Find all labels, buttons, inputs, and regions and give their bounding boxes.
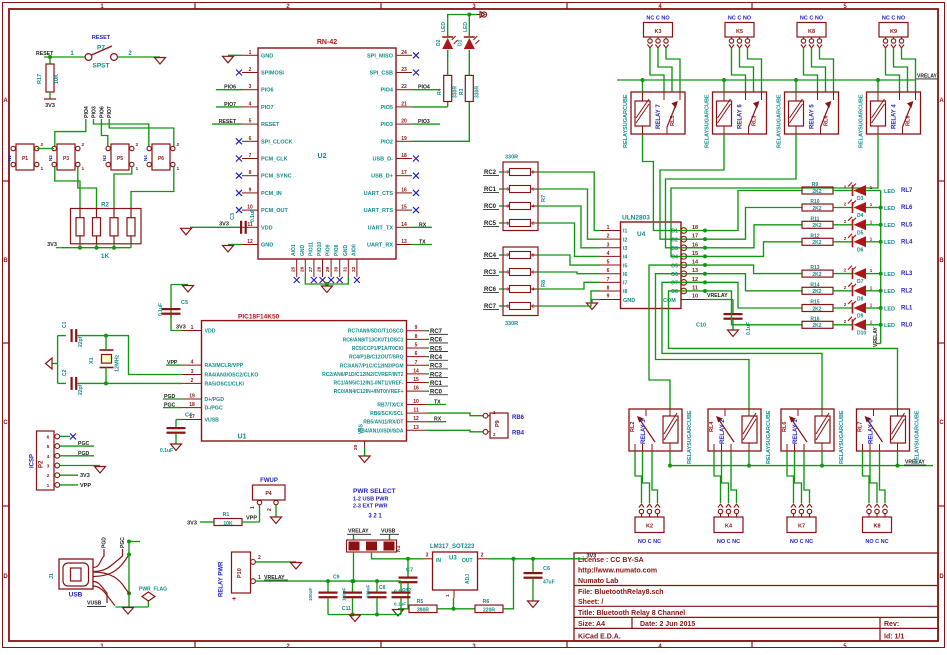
label VRELAY top rail [916,73,937,79]
svg-text:RELAY 0: RELAY 0 [869,419,875,444]
svg-text:10: 10 [413,399,419,405]
wire K4 NO [714,451,721,503]
label RC0 [427,390,449,396]
junction USB trace2 [127,591,131,595]
svg-text:I8: I8 [623,289,627,295]
U2 pin 19 PIO2 [380,136,412,146]
U1 pin 2 RA5/OSC1/CLKI [182,378,245,388]
label VRELAY at jumper [347,529,371,535]
wire U4 O7 to relay RL6 [662,282,822,409]
svg-text:C10: C10 [696,323,706,329]
power 3V3 arrow at LEDs [477,12,487,18]
U2 pin 4 PIO7 [242,101,274,111]
resistor pack R8 330R [503,247,547,327]
svg-text:2: 2 [607,234,610,240]
svg-text:+: + [232,596,236,603]
svg-text:RC1/AN5/C12IN1-/INT1/VREF-: RC1/AN5/C12IN1-/INT1/VREF- [333,381,403,387]
label VPP at R1 [246,516,257,522]
svg-text:ADJ: ADJ [465,574,471,584]
svg-text:O8: O8 [671,289,678,295]
wire K2 NC [652,451,658,503]
junction RESET/R17 [48,55,52,59]
svg-text:C12: C12 [402,588,411,594]
svg-text:390R: 390R [417,607,429,613]
label NC C NO K3 [646,16,670,22]
wire U4 O6 to R14 [705,274,802,291]
svg-text:R11: R11 [811,216,820,222]
U2 pin 8 PCM_SYNC [242,170,292,180]
svg-text:P9: P9 [495,420,501,427]
svg-text:PCM_IN: PCM_IN [261,191,282,197]
svg-text:RA4/AN3/OSC2/CLKO: RA4/AN3/OSC2/CLKO [205,373,259,379]
svg-text:9: 9 [607,294,610,300]
junction VRELAY rail [794,78,798,82]
svg-text:RL8: RL8 [906,116,912,126]
svg-text:1: 1 [177,166,180,172]
svg-text:2K2: 2K2 [812,306,821,312]
U2 pin 21 PIO5 [380,101,412,111]
svg-text:13: 13 [413,425,419,431]
U4 pin 10 COM [663,294,705,305]
svg-text:P3: P3 [63,156,69,162]
wire K7 NO [787,451,794,503]
label NO C NC K8 [865,539,888,545]
svg-text:9: 9 [415,325,418,331]
wire U2 bottom GND pins [305,277,348,284]
wire C3 to U2 VDD [190,226,241,228]
svg-text:22pf: 22pf [78,336,84,347]
svg-text:8: 8 [415,334,418,340]
svg-text:3: 3 [191,369,194,375]
svg-text:R16: R16 [810,316,819,322]
U2 bottom pin 28 PIO10 [317,242,324,277]
label 3V3 at U1 VDD [176,325,186,331]
svg-text:Title: Bluetooth Relay 8 Chann: Title: Bluetooth Relay 8 Channel [578,610,685,617]
svg-text:1: 1 [41,166,44,172]
relay RL7 RELAY 0 [857,409,910,451]
resistor network R2 [71,203,142,261]
jumper K1 power select [347,540,403,552]
svg-text:2: 2 [249,67,252,73]
svg-text:O3: O3 [671,246,678,252]
wire relay RL6 coil to U4 O3 [666,134,797,248]
ground cap bank [350,615,361,622]
connector K9 [879,23,908,48]
svg-text:PGD: PGD [78,451,89,457]
connector K2 [635,504,664,532]
svg-text:PIO8: PIO8 [334,244,340,256]
wire to R5 [408,608,409,610]
wire C7 to divider [398,583,408,609]
wire K8 C [812,48,826,92]
label RL3 [901,271,913,277]
jumper P5 [102,142,139,172]
connector K8 [797,23,826,48]
svg-text:3V3: 3V3 [219,221,229,227]
svg-text:R14: R14 [810,282,819,288]
svg-text:RL2: RL2 [630,422,636,432]
jumper P1 [7,142,44,172]
U2 pin 23 SPI_CSB [369,67,412,77]
svg-text:RL0: RL0 [901,322,913,328]
U2 pin 15 UART_RTS [364,205,412,215]
svg-text:GND: GND [343,245,349,257]
svg-text:3V3: 3V3 [187,521,197,527]
junction U4 O6 [703,272,707,276]
svg-text:6: 6 [47,434,50,440]
svg-text:NC C NO: NC C NO [646,16,670,22]
svg-text:5: 5 [47,444,50,450]
svg-text:P7: P7 [97,45,105,52]
no-connect U2 pin23 [413,70,419,76]
svg-text:VPP: VPP [246,516,257,522]
svg-text:NO C NC: NO C NC [717,539,740,545]
svg-text:RC5/CCP1/P1A/T0CKI: RC5/CCP1/P1A/T0CKI [352,346,404,352]
junction VRELAY bottom rail [820,464,824,468]
svg-text:D4: D4 [857,213,864,219]
wire VSS to gnd [364,448,366,456]
wire R2 pin to rail [79,244,81,248]
svg-text:C1: C1 [62,321,68,328]
svg-text:RC0/AN4/C12IN+/INT0/VREF+: RC0/AN4/C12IN+/INT0/VREF+ [334,389,404,395]
svg-text:8: 8 [607,285,610,291]
svg-text:2K2: 2K2 [812,240,821,246]
svg-text:330R: 330R [453,86,459,98]
svg-text:PGD: PGD [102,537,108,548]
wire P2 pin6 [60,435,70,437]
ground U2 bottom [321,286,332,293]
wire K9 C [894,48,908,92]
svg-text:C11: C11 [342,606,351,612]
label RC2 [427,372,449,378]
svg-text:J1: J1 [49,573,55,579]
value RELAYSUGARCUBE RL8 [859,94,865,148]
svg-text:VRELAY: VRELAY [917,73,937,79]
USB trace D- to PGC [93,549,123,572]
svg-text:USB: USB [69,592,83,599]
svg-text:I4: I4 [623,255,627,261]
svg-text:1: 1 [47,483,50,489]
svg-text:21: 21 [401,101,407,107]
wire K5 NC [732,48,746,92]
U1 pin 20 VSS [353,423,365,450]
wire relay coil to VRELAY [877,80,879,92]
wire rail to C2 [58,382,66,384]
wire U4 gnd [592,300,600,304]
label NO C NC K4 [717,539,740,545]
label RX at pin14 [412,222,432,228]
power 3V3 at R2 [47,242,62,248]
wire USB rail top stub [129,541,140,543]
connector P2 ICSP [37,431,60,490]
no-connect U2 pin 10 [236,207,242,213]
svg-text:0.1uF: 0.1uF [160,448,173,454]
value RELAYSUGARCUBE RL6 [839,410,845,464]
label RC7 [483,304,503,310]
svg-text:P2: P2 [39,460,45,468]
junction VRELAY rail [876,78,880,82]
U1 pin 12 RB5/AN11/RX/DT [363,416,426,426]
svg-text:RB6/SCK/SCL: RB6/SCK/SCL [370,411,403,417]
svg-text:SPI_CLOCK: SPI_CLOCK [261,139,293,145]
svg-text:6: 6 [415,351,418,357]
resistor R6 [475,599,503,613]
svg-text:PCM_SYNC: PCM_SYNC [261,174,292,180]
svg-text:2: 2 [481,553,484,559]
svg-text:RL3: RL3 [752,116,758,126]
svg-text:RL7: RL7 [858,422,864,432]
svg-text:PIO2: PIO2 [380,139,393,145]
label RC5 [483,221,503,227]
svg-text:D: D [3,574,8,580]
svg-text:D5: D5 [857,230,864,236]
svg-text:27: 27 [308,266,314,272]
U1 pin 10 RB7/TX/CX [377,399,426,409]
svg-text:C2: C2 [62,369,68,376]
wire U4 O5 to relay RL2 [649,265,705,409]
wire OSC1 to U1 [106,382,182,384]
wire to power [470,14,477,16]
crystal X1 12MHz [89,350,121,372]
svg-text:16: 16 [413,386,419,392]
U4 pin 1 I1 [600,225,627,235]
power flag VRELAY vertical [873,327,881,347]
svg-text:0.1uF: 0.1uF [158,303,164,316]
value LED D6 [884,240,895,246]
svg-text:RB6: RB6 [512,415,525,421]
wire R9 to D3 [833,190,852,192]
capacitor C12 [392,581,411,614]
svg-text:RC2/AN6/P1D/C12IN2/CVREF/INT2: RC2/AN6/P1D/C12IN2/CVREF/INT2 [322,372,404,378]
label RL0 [901,322,913,328]
svg-text:100uF: 100uF [342,588,347,601]
connector K5 [725,23,754,48]
svg-text:RELAYSUGARCUBE: RELAYSUGARCUBE [915,410,921,464]
label PIO3 at pin20 [412,119,440,125]
value RELAYSUGARCUBE RL6 [777,94,783,148]
svg-text:PIO4: PIO4 [380,88,393,94]
wire U4 O8 to R16 [705,291,802,325]
capacitor C8 [368,581,387,614]
U1 pin 14 RC2 [322,368,426,378]
svg-text:0.1uF: 0.1uF [250,209,256,222]
svg-text:2: 2 [267,508,273,511]
wire R2 pin to rail [130,244,132,248]
LED D2 [436,22,458,76]
svg-text:R12: R12 [810,233,819,239]
svg-text:VRELAY: VRELAY [707,293,728,299]
svg-text:D9: D9 [857,314,864,320]
ground at C5 [183,286,194,293]
wire K4 C [722,451,729,503]
label RL5 [901,222,913,228]
svg-text:VUSB: VUSB [381,529,396,535]
wire crystal top [105,336,107,350]
svg-text:17: 17 [401,170,407,176]
wire R10 to D4 [833,207,852,209]
svg-text:U3: U3 [449,556,457,562]
U2 pin 11 VDD [242,222,273,232]
wire P6 out to R2 pin4 [131,167,174,209]
resistor R11 2K2 [802,216,833,229]
USB trace VBUS [93,582,107,604]
svg-text:RL7: RL7 [901,188,913,194]
svg-text:D-/PGC: D-/PGC [205,406,223,412]
U2 bottom pin 26 GND [299,245,306,278]
relay RL4 RELAY 2 [708,409,761,451]
value LED D5 [884,223,895,229]
svg-text:2K2: 2K2 [812,289,821,295]
svg-text:18: 18 [401,153,407,159]
no-connect U2 bottom 29 [328,277,334,283]
wire P4 pin2 down [275,505,277,517]
svg-text:12: 12 [413,416,419,422]
svg-text:18: 18 [189,402,195,408]
wire relay coil to VRELAY rail [897,451,899,466]
wire COM to C10 [705,299,733,301]
label ICSP [30,454,36,468]
U2 pin 7 PCM_CLK [242,153,288,163]
svg-text:D2: D2 [436,39,442,46]
junction U2 bottom gnd [325,282,329,286]
wire R6 up to output [503,559,514,609]
LED D4 [844,200,873,220]
no-connect U2 pin 18 [413,156,419,162]
svg-text:330R: 330R [505,155,518,161]
label RC4 [483,253,503,259]
U2 pin 12 GND [242,239,273,249]
svg-text:O2: O2 [671,237,678,243]
U4 pin 13 O6 [671,268,705,278]
junction LED rail [879,223,883,227]
svg-text:LM317_SOT223: LM317_SOT223 [430,544,475,550]
ground U2 pin12 [223,246,234,253]
svg-text:10: 10 [692,294,698,300]
wire PIO4 to P3 [55,119,86,147]
svg-text:LED: LED [463,22,469,32]
wire relay coil to VRELAY [723,80,725,92]
wire R7.2 to U4 I2 [538,189,600,239]
value LED D4 [884,206,895,212]
svg-text:RB4: RB4 [512,431,525,437]
wire USB gnd rail [128,542,130,608]
USB trace GND [93,555,129,577]
capacitor C10 [696,300,752,336]
wire D5 to VRELAY rail [866,224,881,226]
svg-text:8: 8 [249,170,252,176]
label PGC [163,403,182,409]
svg-text:RELAY 3: RELAY 3 [641,419,647,444]
label RL6 [901,205,913,211]
resistor R17 [37,57,60,99]
wire R1 to VPP [242,521,260,523]
svg-text:I5: I5 [623,263,627,269]
label NC C NO K8 [800,16,824,22]
U2 bottom pin 29 PIO9 [325,244,332,277]
ground USB [123,608,134,615]
svg-text:D+/PGD: D+/PGD [205,397,225,403]
resistor R12 2K2 [802,233,833,246]
svg-text:COM: COM [663,298,676,304]
svg-text:B: B [939,258,944,264]
ground at C7 [393,610,404,617]
U4 pin 14 O5 [671,260,705,270]
svg-text:RL5: RL5 [901,222,913,228]
svg-text:3V3: 3V3 [80,473,90,479]
relay RL6 RELAY 5 [785,92,839,134]
IC U2 RN-42 body [258,39,396,259]
U4 pin 2 I2 [600,234,627,244]
svg-text:RC6/AN8/T13CKI/T1OSC1: RC6/AN8/T13CKI/T1OSC1 [343,337,404,343]
resistor R10 2K2 [802,199,833,212]
junction VRELAY rail [722,78,726,82]
wire relay RL3 coil to U4 O2 [660,134,724,239]
svg-text:5: 5 [249,119,252,125]
connector P10 RELAY PWR [232,552,262,603]
resistor R13 2K2 [802,265,833,278]
junction R2 rail [78,246,82,250]
svg-text:PIO5: PIO5 [380,105,393,111]
label RC6 [427,338,449,344]
U1 pin 13 RB4/AN10/SDI/SDA [358,425,427,435]
capacitor C2 [62,369,84,395]
svg-text:AIO0: AIO0 [351,244,357,256]
no-connect U2 pin24 [413,52,419,58]
svg-text:RELAYSUGARCUBE: RELAYSUGARCUBE [705,94,711,148]
svg-text:USB_D-: USB_D- [373,157,394,163]
svg-text:RELAYSUGARCUBE: RELAYSUGARCUBE [623,94,629,148]
U1 pin 4 RA3/MCLR/VPP [182,360,244,370]
ground U2 pin1 [223,56,234,63]
svg-text:RA5/OSC1/CLKI: RA5/OSC1/CLKI [205,381,245,387]
label PIO3 vertical [92,106,98,118]
svg-text:LED: LED [884,189,895,195]
wire LM317 OUT rail [488,558,586,560]
svg-text:SPI_MISO: SPI_MISO [367,53,394,59]
svg-text:PIC18F14K50: PIC18F14K50 [238,314,280,321]
resistor pack R7 330R [503,155,547,231]
svg-text:PIO6: PIO6 [261,88,274,94]
svg-text:NO C NC: NO C NC [638,539,661,545]
svg-text:1: 1 [136,166,139,172]
svg-text:RL3: RL3 [901,271,913,277]
junction R2 rail [95,246,99,250]
wire K5 NO [748,48,762,92]
U2 bottom pin 31 GND [342,245,349,278]
svg-text:6: 6 [607,268,610,274]
U1 pin 6 RC4 [349,351,426,361]
junction C9 top [326,579,330,583]
wire D4 to VRELAY rail [866,207,881,209]
label RB4 [512,431,525,437]
svg-text:4: 4 [191,360,194,366]
ground P4 [271,517,282,524]
svg-text:PIO10: PIO10 [317,242,323,256]
wire R13 to D7 [833,273,852,275]
wire C5 to U1 VDD [171,315,182,331]
svg-text:Numato Lab: Numato Lab [578,578,618,585]
svg-text:P10: P10 [237,568,243,578]
title block [574,553,938,641]
svg-text:3: 3 [249,84,252,90]
svg-text:RA3/MCLR/VPP: RA3/MCLR/VPP [205,363,244,369]
connector K7 [787,504,816,532]
U1 pin 7 RC3 [340,360,427,370]
switch P7 SPST [70,45,132,70]
junction C11 top [351,579,355,583]
svg-text:Sheet: /: Sheet: / [578,599,603,606]
svg-text:13: 13 [401,239,407,245]
